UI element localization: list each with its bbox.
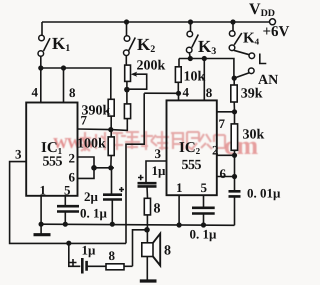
svg-text:7: 7: [219, 116, 226, 131]
svg-text:200k: 200k: [137, 59, 166, 74]
svg-text:+6V: +6V: [263, 24, 290, 40]
svg-text:2: 2: [69, 151, 76, 166]
svg-text:0. 1μ: 0. 1μ: [190, 227, 218, 242]
svg-text:100k: 100k: [77, 137, 106, 152]
svg-text:2μ: 2μ: [84, 189, 99, 204]
svg-text:3: 3: [15, 147, 22, 162]
svg-text:3: 3: [155, 146, 162, 161]
svg-text:8: 8: [109, 248, 116, 263]
svg-text:6: 6: [220, 166, 227, 181]
svg-text:8: 8: [154, 202, 161, 217]
svg-text:39k: 39k: [241, 87, 263, 102]
svg-text:1μ: 1μ: [82, 243, 97, 258]
svg-text:4: 4: [183, 85, 190, 100]
svg-text:1: 1: [40, 183, 47, 198]
svg-text:8: 8: [69, 85, 76, 100]
svg-text:555: 555: [182, 158, 202, 173]
svg-text:10k: 10k: [184, 70, 206, 85]
svg-text:0. 1μ: 0. 1μ: [80, 206, 108, 221]
svg-text:1μ: 1μ: [152, 163, 167, 178]
svg-text:5: 5: [201, 180, 208, 195]
svg-text:8: 8: [164, 244, 171, 259]
svg-text:555: 555: [43, 155, 63, 170]
svg-text:8: 8: [206, 85, 213, 100]
svg-text:0. 01μ: 0. 01μ: [247, 186, 281, 201]
svg-text:7: 7: [81, 113, 88, 128]
svg-text:30k: 30k: [243, 128, 265, 143]
svg-text:1: 1: [176, 180, 183, 195]
svg-text:5: 5: [64, 183, 71, 198]
svg-text:4: 4: [32, 85, 39, 100]
